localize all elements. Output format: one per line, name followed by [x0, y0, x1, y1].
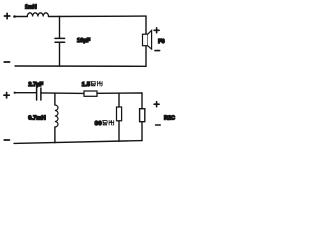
- resistor R1 (1.5 ohm series box): [84, 91, 97, 96]
- speaker plus label: [154, 28, 159, 33]
- svg-text:2.7µF: 2.7µF: [28, 82, 43, 88]
- wire (R2C branch lower): [141, 122, 143, 141]
- wire (bottom circuit bottom rail): [14, 141, 142, 144]
- inductor L2: [55, 105, 58, 127]
- resistor R2 (30 ohm shunt box): [117, 107, 122, 121]
- wire: [97, 92, 142, 94]
- wire (cap branch upper): [59, 16, 61, 38]
- node - terminal (top circuit minus sign): [4, 61, 9, 63]
- resistor R3 (R2C box): [140, 109, 145, 122]
- resistor R2 ohm characters: [103, 120, 114, 125]
- svg-text:10µF: 10µF: [77, 38, 91, 44]
- svg-text:1mH: 1mH: [25, 4, 37, 10]
- wire (30 ohm branch lower): [118, 121, 120, 142]
- wire (top circuit bottom rail): [15, 65, 146, 67]
- wire (top circuit right vertical): [145, 16, 147, 66]
- svg-text:F6: F6: [158, 39, 164, 45]
- wire (R2C branch upper): [141, 93, 143, 109]
- svg-text:30: 30: [95, 121, 102, 127]
- R2C minus label: [156, 124, 161, 126]
- svg-text:1.5: 1.5: [82, 82, 91, 88]
- wire: [15, 92, 37, 94]
- wire (shunt inductor branch lower): [54, 127, 56, 143]
- R2C plus label: [154, 102, 159, 107]
- svg-text:0.7mH: 0.7mH: [28, 116, 45, 122]
- inductor L1: [27, 13, 48, 17]
- node - terminal (bottom circuit minus sign): [4, 139, 9, 141]
- wire (30 ohm branch upper): [118, 93, 120, 107]
- node + terminal (bottom circuit plus sign): [4, 93, 9, 98]
- speaker minus label: [155, 50, 160, 52]
- wire (shunt inductor branch upper): [54, 93, 56, 105]
- wire: [49, 15, 147, 17]
- wire: [41, 92, 84, 95]
- capacitor C1: [55, 38, 65, 42]
- node B (input dot bottom circuit): [14, 92, 16, 94]
- capacitor C2: [37, 88, 41, 100]
- resistor R1 ohm characters: [91, 81, 102, 86]
- node + terminal (top circuit plus sign): [4, 13, 9, 18]
- node A (input dot top circuit): [13, 15, 16, 18]
- wire: [15, 16, 28, 18]
- wire (cap branch lower): [59, 43, 61, 66]
- svg-text:R2C: R2C: [164, 115, 175, 121]
- speaker LS1: [143, 30, 152, 49]
